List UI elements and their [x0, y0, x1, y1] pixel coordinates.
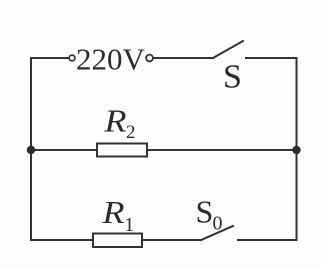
wire top segment right	[246, 57, 297, 59]
svg-text:S: S	[196, 194, 214, 230]
resistor R2 body	[97, 144, 147, 157]
node junction dot right	[292, 146, 300, 154]
switch S blade	[213, 41, 243, 58]
svg-text:2: 2	[126, 122, 136, 143]
source terminal left circle	[69, 55, 75, 61]
svg-text:R: R	[101, 194, 125, 230]
wire middle segment right	[147, 149, 297, 151]
svg-text:0: 0	[213, 213, 223, 235]
wire top segment middle	[154, 57, 213, 59]
svg-text:R: R	[103, 103, 127, 139]
source terminal right circle	[146, 55, 153, 62]
wire bottom segment left	[31, 239, 93, 241]
resistor R1 body	[93, 234, 142, 248]
wire bottom segment right	[238, 239, 297, 241]
wire right rail	[296, 58, 298, 240]
wire middle segment left	[31, 149, 97, 151]
node junction dot left	[27, 146, 35, 154]
switch S0 blade	[201, 226, 233, 240]
wire left rail	[30, 58, 32, 240]
wire top segment left	[31, 57, 69, 59]
svg-text:220V: 220V	[76, 42, 146, 77]
wire bottom segment middle	[142, 239, 201, 241]
svg-text:1: 1	[124, 214, 134, 236]
svg-text:S: S	[223, 59, 242, 96]
